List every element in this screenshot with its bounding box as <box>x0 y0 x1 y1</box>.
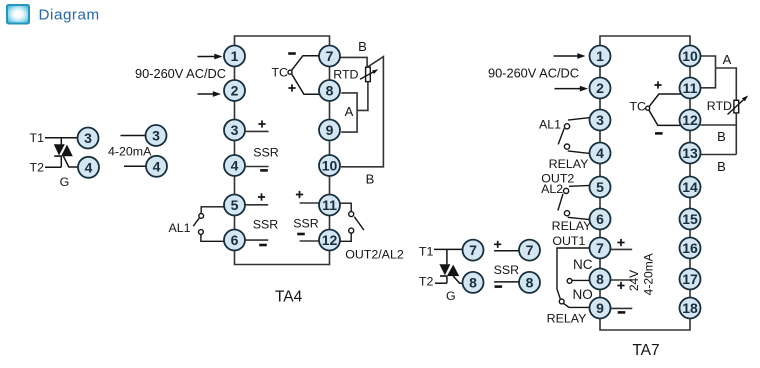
svg-text:7: 7 <box>596 240 604 256</box>
svg-text:4: 4 <box>85 159 93 175</box>
svg-text:7: 7 <box>326 48 334 64</box>
svg-text:RELAY: RELAY <box>552 219 592 233</box>
svg-text:T1: T1 <box>419 244 434 258</box>
svg-text:2: 2 <box>596 80 604 96</box>
svg-text:OUT1: OUT1 <box>552 234 585 248</box>
svg-text:8: 8 <box>596 271 604 287</box>
svg-text:6: 6 <box>231 232 239 248</box>
svg-text:G: G <box>446 289 456 303</box>
svg-text:3: 3 <box>596 112 604 128</box>
svg-text:7: 7 <box>526 242 534 258</box>
svg-text:6: 6 <box>596 211 604 227</box>
svg-text:7: 7 <box>469 242 477 258</box>
svg-text:8: 8 <box>526 274 534 290</box>
svg-text:B: B <box>717 159 726 174</box>
svg-text:T2: T2 <box>30 161 45 175</box>
svg-text:SSR: SSR <box>293 217 319 231</box>
svg-text:8: 8 <box>469 274 477 290</box>
svg-text:10: 10 <box>682 48 698 64</box>
svg-text:3: 3 <box>231 122 239 138</box>
svg-text:B: B <box>717 129 726 144</box>
svg-text:3: 3 <box>84 130 92 146</box>
svg-text:15: 15 <box>682 211 698 227</box>
svg-text:B: B <box>366 172 375 187</box>
svg-text:AL1: AL1 <box>539 118 561 132</box>
svg-text:9: 9 <box>326 122 334 138</box>
svg-text:4: 4 <box>153 158 161 174</box>
svg-text:Diagram: Diagram <box>39 6 100 23</box>
svg-text:G: G <box>60 175 70 189</box>
svg-text:11: 11 <box>683 80 698 96</box>
svg-text:3: 3 <box>152 128 160 144</box>
svg-text:1: 1 <box>596 48 604 64</box>
svg-text:10: 10 <box>322 158 338 174</box>
svg-text:2: 2 <box>231 83 239 99</box>
svg-text:AL1: AL1 <box>168 221 190 235</box>
svg-text:4: 4 <box>596 145 604 161</box>
svg-text:SSR: SSR <box>494 263 520 277</box>
svg-text:TC: TC <box>629 100 646 114</box>
svg-text:8: 8 <box>326 83 334 99</box>
svg-text:12: 12 <box>322 232 338 248</box>
svg-text:1: 1 <box>231 48 239 64</box>
svg-text:NC: NC <box>573 257 593 272</box>
svg-text:T2: T2 <box>419 275 434 289</box>
svg-text:TA4: TA4 <box>275 289 303 306</box>
svg-text:13: 13 <box>682 145 698 161</box>
svg-text:RTD: RTD <box>333 67 358 81</box>
svg-text:SSR: SSR <box>253 146 279 160</box>
svg-text:17: 17 <box>682 271 698 287</box>
svg-text:A: A <box>345 104 354 119</box>
svg-text:TC: TC <box>271 66 288 80</box>
svg-text:RTD: RTD <box>707 99 732 113</box>
svg-text:18: 18 <box>682 300 698 316</box>
svg-text:11: 11 <box>322 197 337 213</box>
svg-text:RELAY: RELAY <box>549 157 589 171</box>
svg-text:9: 9 <box>596 300 604 316</box>
svg-text:14: 14 <box>682 179 698 195</box>
svg-text:NO: NO <box>573 287 593 302</box>
svg-text:5: 5 <box>596 179 604 195</box>
svg-text:OUT2/AL2: OUT2/AL2 <box>345 248 404 262</box>
svg-text:RELAY: RELAY <box>547 312 587 326</box>
svg-text:16: 16 <box>682 240 698 256</box>
svg-text:T1: T1 <box>30 131 45 145</box>
svg-text:A: A <box>723 52 732 67</box>
svg-text:12: 12 <box>682 112 698 128</box>
svg-text:24V: 24V <box>627 270 641 291</box>
svg-text:5: 5 <box>231 197 239 213</box>
svg-text:90-260V AC/DC: 90-260V AC/DC <box>135 66 226 81</box>
svg-text:AL2: AL2 <box>541 182 563 196</box>
svg-text:4-20mA: 4-20mA <box>641 253 655 295</box>
svg-text:4: 4 <box>231 158 239 174</box>
svg-text:B: B <box>358 39 367 54</box>
svg-text:TA7: TA7 <box>632 342 659 359</box>
svg-text:90-260V AC/DC: 90-260V AC/DC <box>488 66 579 81</box>
svg-text:4-20mA: 4-20mA <box>108 145 152 159</box>
svg-text:SSR: SSR <box>253 218 279 232</box>
